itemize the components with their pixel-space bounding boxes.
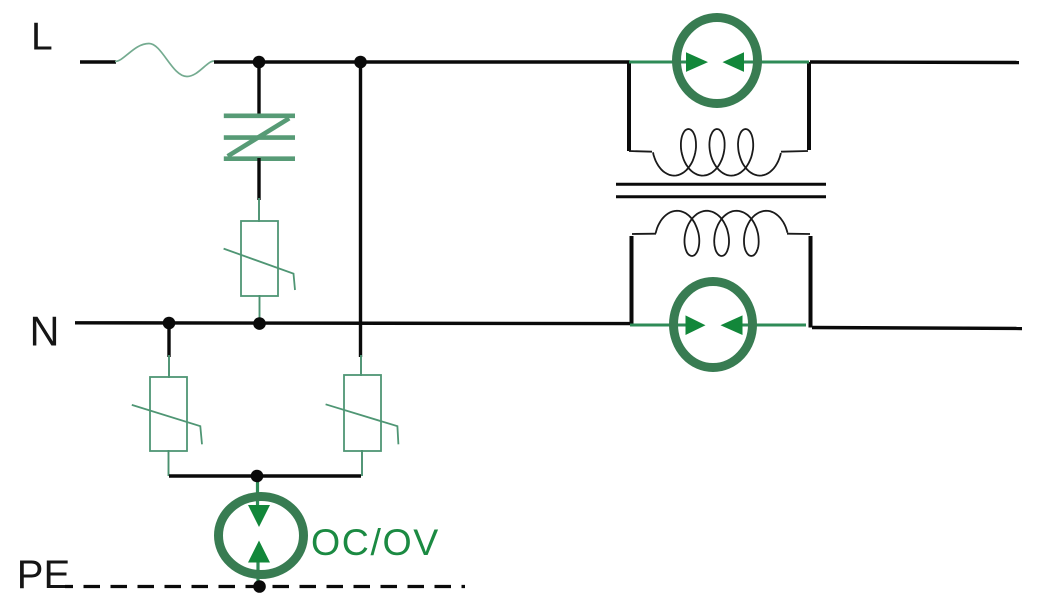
OC/OV monitor circle — [219, 497, 304, 575]
wire vertical from L crossing N to varistor MOV3 — [359, 61, 362, 358]
probe wire L green left — [629, 61, 689, 64]
wire N right segment — [812, 328, 1022, 329]
OC/OV down arrow — [248, 505, 270, 527]
OC/OV up arrow — [248, 541, 270, 563]
transformer primary winding — [629, 129, 808, 176]
svg-text:L: L — [31, 16, 53, 59]
transformer primary left vertical — [627, 62, 631, 151]
lead into MOV3 — [360, 355, 362, 376]
varistor MOV2 — [132, 377, 202, 451]
wire L left segment — [80, 60, 116, 63]
lead MOV2 to bus — [168, 450, 170, 476]
junction dot L-MOV1 — [253, 56, 266, 69]
wire N left segment — [75, 321, 630, 325]
current probe circle on L — [677, 18, 758, 104]
probe N left-pointing arrow — [721, 315, 743, 335]
probe L right-pointing arrow — [686, 52, 708, 72]
wire GDT to varistor MOV1 — [257, 158, 260, 200]
junction dot N-MOV1 — [253, 317, 266, 330]
surge wave symbol on L — [115, 44, 214, 77]
transformer secondary left vertical — [630, 236, 634, 325]
junction dot N-MOV2 — [163, 317, 176, 330]
probe L left-pointing arrow — [723, 52, 745, 72]
wire L right segment — [810, 60, 1019, 64]
transformer core line upper — [616, 183, 826, 186]
varistor MOV1 — [224, 221, 295, 296]
transformer core line lower — [616, 195, 826, 198]
transformer primary right vertical — [807, 62, 811, 150]
probe wire L green right — [742, 61, 809, 64]
wire vertical from L to GDT — [257, 61, 260, 117]
probe N right-pointing arrow — [686, 315, 706, 335]
lead into MOV1 — [258, 198, 260, 222]
current probe circle on N — [674, 282, 753, 368]
probe wire N green left — [630, 324, 688, 327]
wire PE dashed — [65, 585, 465, 588]
wire bus to OC/OV monitor — [256, 476, 259, 507]
svg-text:OC/OV: OC/OV — [311, 521, 440, 563]
wire L middle segment — [214, 60, 630, 63]
lead MOV1 to N — [259, 295, 261, 324]
lead into MOV2 — [168, 355, 170, 378]
gas discharge tube arrester symbol — [224, 116, 295, 159]
wire vertical N to varistor MOV2 — [167, 323, 170, 357]
junction dot L-MOV3 branch — [354, 56, 367, 69]
svg-text:N: N — [30, 308, 60, 355]
transformer secondary right vertical — [809, 236, 813, 328]
wire OC/OV monitor to PE — [256, 560, 259, 586]
probe wire N green right — [741, 324, 806, 327]
varistor MOV3 — [326, 375, 399, 451]
lead MOV3 to bus — [361, 450, 363, 476]
junction dot PE — [253, 580, 266, 593]
transformer secondary winding — [632, 211, 810, 256]
junction dot bus — [251, 470, 264, 483]
wire bottom bus — [169, 474, 361, 477]
svg-text:PE: PE — [17, 553, 70, 597]
